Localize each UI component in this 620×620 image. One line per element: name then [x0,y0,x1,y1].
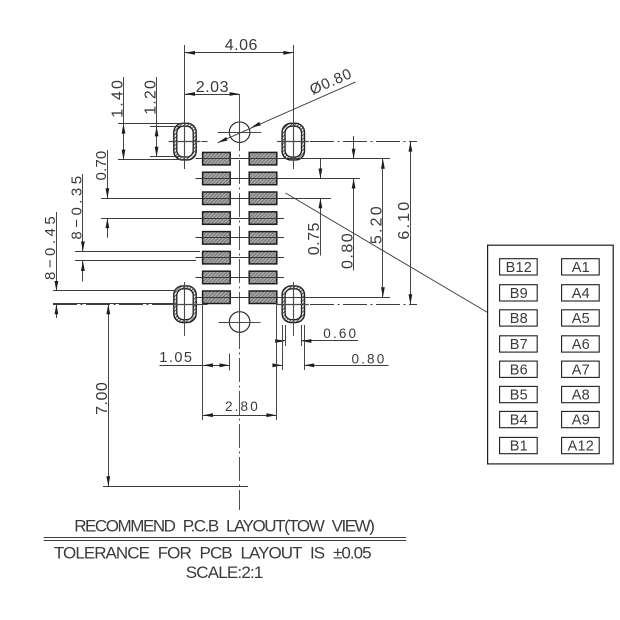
dimension 6.10 (oval row centers) [410,142,412,305]
SMT pad B12 (left row 1) [203,152,231,165]
svg-text:8−0.35: 8−0.35 [69,176,86,240]
oval mounting pad bottom-left [174,286,196,323]
svg-text:B4: B4 [510,413,528,429]
0.60 left extension (inner edge) [285,325,287,346]
row3 center extension right (0.75 dim) [284,198,331,200]
oval mounting pad bottom-right [282,286,304,323]
top-left oval horizontal centerline [169,141,208,143]
pad row 3 horizontal centerline [196,198,285,200]
table cell B8 [500,310,538,326]
title underline upper [44,537,407,539]
svg-text:A12: A12 [568,439,594,455]
top circle centerline solid v [239,118,241,146]
SMT pad B7 (left row 4) [203,212,231,225]
svg-text:0.60: 0.60 [323,326,356,341]
svg-text:1.40: 1.40 [109,80,126,118]
svg-text:4.06: 4.06 [225,37,258,54]
SMT pad B9 (left row 2) [203,172,231,185]
svg-text:B12: B12 [506,260,532,276]
dimension 8-0.45 (pad height), outside arrows [56,212,58,291]
0.80 left extension (outer edge) [282,325,284,370]
SMT pad B8 (left row 3) [203,192,231,205]
oval centerline solid segment v [184,284,186,324]
table cell A5 [562,310,600,326]
svg-text:A4: A4 [572,286,590,302]
table cell B6 [500,361,538,377]
oval centerline solid segment h [170,304,201,306]
table cell A7 [562,361,600,377]
bottom-right oval vertical centerline [293,282,295,336]
pad row 6 horizontal centerline [196,257,285,259]
bottom-right oval horizontal centerline extended to 6.10 dim [277,304,417,306]
row4 center extension left (0.70 dim) [101,218,200,220]
svg-text:B6: B6 [510,362,528,378]
svg-text:6.10: 6.10 [396,202,413,240]
table cell A12 [562,437,600,453]
table cell B12 [500,259,538,275]
pad row 4 horizontal centerline [196,218,285,220]
1.05 right extension line [229,354,231,371]
table cell B7 [500,336,538,352]
leader arrow at circle edge [251,122,261,128]
pad row 2 horizontal centerline [196,178,285,180]
svg-text:0.80: 0.80 [339,233,356,269]
svg-text:1.20: 1.20 [142,80,159,115]
top-right oval horizontal centerline extended to 6.10 dim [277,141,417,143]
0.60 right extension (inner edge) [301,325,303,346]
bottom circle centerline solid h [226,322,254,324]
leader arrow lower-left [218,137,228,143]
table cell A1 [562,259,600,275]
8-0.45 upper extension line (row8 pad top edge) [53,290,174,292]
row2 center extension right (0.80/0.75 dims) [284,178,360,180]
dimension 2.03 (left oval center to axis) [185,94,240,96]
row8 center extension right (5.20 dim) [284,297,390,299]
SMT pad B5 (left row 6) [203,251,231,264]
oval centerline solid segment v [184,122,186,162]
top circle centerline solid h [226,132,254,134]
dimension 0.75 (row pitch rows 2-3, outside arrows) [320,159,322,179]
SMT pad A6 (right row 4) [249,212,277,225]
dimension 8-0.35 (pad contact height), outside arrows [82,174,84,251]
svg-text:TOLERANCE FOR PCB LAYOUT IS ±0: TOLERANCE FOR PCB LAYOUT IS ±0.05 [54,543,372,562]
table cell A9 [562,411,600,427]
top circle horizontal centerline [218,132,262,134]
7.00 bottom reference extension line [103,486,248,488]
bottom-left oval vertical centerline [184,282,186,336]
svg-text:2.80: 2.80 [225,399,258,414]
svg-text:RECOMMEND P.C.B LAYOUT(TOW VIE: RECOMMEND P.C.B LAYOUT(TOW VIEW) [74,517,375,536]
oval centerline solid segment h [278,304,309,306]
dimension 1.40 (oval pad outer height) [118,123,186,125]
table cell A4 [562,285,600,301]
svg-text:7.00: 7.00 [94,382,111,415]
table cell B1 [500,437,538,453]
svg-text:B5: B5 [510,388,528,404]
svg-text:B1: B1 [510,439,528,455]
SMT pad A5 (right row 3) [249,192,277,205]
svg-text:5.20: 5.20 [369,206,386,244]
SMT pad B4 (left row 7) [203,271,231,284]
pad row 7 horizontal centerline [196,277,285,279]
pin name table outer box [488,245,614,464]
oval centerline solid segment v [293,122,295,162]
leader line for dia 0.80 hole callout [218,82,356,143]
svg-text:B8: B8 [510,311,528,327]
dimension 4.06 (top, span between oval centers) [185,52,293,54]
svg-text:A9: A9 [572,413,590,429]
svg-text:A6: A6 [572,337,590,353]
2.80 right extension line [276,302,278,420]
8-0.35 lower extension line [75,260,196,262]
dimension 0.70 (row3 to row4 centers, outside arrows) [107,150,109,198]
dimension 0.80 (row pitch rows 1-2, outside arrows) [353,136,355,159]
SMT pad A9 (right row 7) [249,271,277,284]
main vertical centerline axis [239,94,241,510]
svg-text:SCALE:2:1: SCALE:2:1 [186,563,264,582]
table cell B9 [500,285,538,301]
top-right oval vertical centerline / 4.06 extension [293,45,295,169]
leader line from pad field to pin name table [286,193,488,313]
row1 center extension right (5.20/0.80 dims) [284,158,390,160]
SMT pad B1 (left row 8) [203,291,231,304]
table cell B4 [500,411,538,427]
8-0.35 upper extension line (row6 pad top edge) [75,251,200,253]
bottom circle horizontal centerline [219,322,261,324]
bottom circle centerline solid v [239,308,241,336]
pad row 5 horizontal centerline [196,237,285,239]
dimension 1.20 (oval pad inner height) [150,126,183,128]
oval centerline solid segment v [293,284,295,324]
pad row 1 horizontal centerline [196,158,285,160]
svg-text:A7: A7 [572,362,590,378]
svg-text:1.05: 1.05 [159,350,192,366]
table cell B5 [500,386,538,402]
svg-text:A8: A8 [572,388,590,404]
bottom oval row centerline left / 8-0.45 lower extension [53,304,208,306]
pad row 8 horizontal centerline [196,297,285,299]
oval centerline solid segment h [170,141,201,143]
svg-text:A1: A1 [572,260,590,276]
dimension 7.00 (oval row2 center to bottom reference) [108,304,110,486]
svg-text:0.80: 0.80 [352,351,385,366]
row3 center extension left (0.70 dim) [101,198,200,200]
svg-text:B9: B9 [510,286,528,302]
svg-text:0.70: 0.70 [93,151,110,181]
SMT pad A4 (right row 2) [249,172,277,185]
oval mounting pad top-left [174,123,196,160]
through hole circle bottom, dia 0.80 [229,312,250,333]
dimension 5.20 (row1 to row8 centers) [382,159,384,298]
svg-text:Ø0.80: Ø0.80 [307,65,354,98]
title underline lower [44,540,407,542]
0.80 right extension (outer edge) [304,325,306,370]
SMT pad A1 (right row 1) [249,152,277,165]
svg-text:A5: A5 [572,311,590,327]
oval mounting pad top-right [282,123,304,160]
svg-text:B7: B7 [510,337,528,353]
top-left oval vertical centerline / 4.06 extension [184,45,186,169]
8-0.45 lower extension line (row8 pad bottom edge) [53,303,174,305]
table cell A6 [562,336,600,352]
svg-text:0.75: 0.75 [306,222,323,255]
oval centerline solid segment h [278,141,309,143]
SMT pad B6 (left row 5) [203,232,231,245]
SMT pad A8 (right row 6) [249,251,277,264]
SMT pad A7 (right row 5) [249,232,277,245]
2.80 left extension line [202,302,204,420]
table cell A8 [562,386,600,402]
svg-text:2.03: 2.03 [196,79,229,96]
through hole circle top, dia 0.80 [229,122,250,143]
SMT pad A12 (right row 8) [249,291,277,304]
